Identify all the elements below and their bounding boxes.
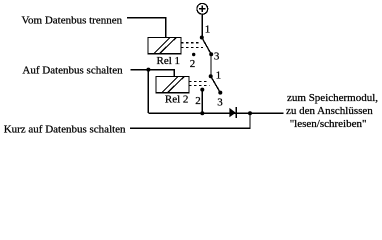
svg-text:Auf Datenbus schalten: Auf Datenbus schalten xyxy=(22,64,123,76)
svg-text:1: 1 xyxy=(216,69,222,81)
svg-text:1: 1 xyxy=(205,24,211,36)
svg-text:Kurz auf Datenbus schalten: Kurz auf Datenbus schalten xyxy=(4,124,126,136)
svg-text:zu den Anschlüssen: zu den Anschlüssen xyxy=(286,105,373,117)
svg-text:"lesen/schreiben": "lesen/schreiben" xyxy=(290,118,367,130)
svg-text:Rel 2: Rel 2 xyxy=(165,93,189,105)
svg-text:3: 3 xyxy=(214,51,220,63)
svg-text:2: 2 xyxy=(195,95,201,107)
svg-text:Vom Datenbus trennen: Vom Datenbus trennen xyxy=(22,15,123,27)
svg-text:zum Speichermodul,: zum Speichermodul, xyxy=(287,92,378,104)
svg-text:Rel 1: Rel 1 xyxy=(157,55,181,67)
svg-text:2: 2 xyxy=(190,58,196,70)
svg-text:3: 3 xyxy=(217,97,223,109)
